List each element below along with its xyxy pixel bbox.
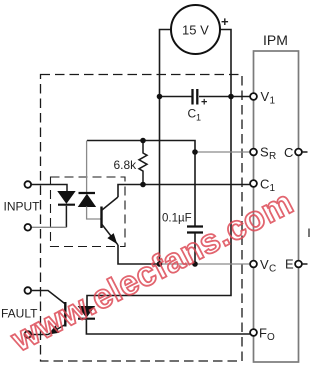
wire: VC rail to VC terminal [118, 245, 160, 264]
junction dot resistor bottom [140, 182, 146, 188]
fault LED D3 cathode wire to FO [86, 320, 250, 334]
junction dot supply neg / V1 wire [157, 94, 163, 100]
svg-text:1: 1 [270, 96, 276, 107]
svg-text:INPUT: INPUT [4, 200, 41, 214]
capacitor C1 plates [193, 89, 198, 105]
phototransistor Q1 emitter [102, 225, 118, 246]
FAULT terminal bottom [25, 331, 32, 338]
wire: collector / 6.8k bottom to C1 terminal [118, 185, 250, 198]
junction dot supply pos / V1 wire [228, 94, 234, 100]
terminal FO [250, 329, 257, 336]
svg-text:6.8k: 6.8k [114, 158, 138, 172]
junction dot 0.1uF bottom [192, 261, 198, 267]
fault phototransistor Q2 emitter arrow [50, 327, 58, 334]
svg-text:V: V [260, 257, 269, 272]
wire: supply positive rail down to fault LED anode [87, 30, 231, 307]
svg-text:+: + [221, 14, 229, 29]
watermark www.elecfans.com [5, 183, 300, 359]
photodiode D2 [79, 192, 96, 194]
terminal C1 [250, 180, 257, 187]
svg-text:V: V [261, 89, 270, 104]
terminal VC [250, 261, 257, 268]
wire SR node down to 0.1uF [194, 152, 196, 226]
wire 0.1uF bottom to VC wire [194, 233, 196, 264]
svg-text:+: + [201, 97, 207, 109]
current mark I [308, 229, 310, 238]
IPM module outline [254, 51, 299, 362]
input LED D1 cathode wire [65, 206, 67, 228]
resistor 6.8k [139, 141, 147, 185]
fault phototransistor Q2 collector wire [31, 291, 65, 305]
phototransistor Q1 collector [102, 197, 118, 210]
svg-text:C: C [260, 177, 269, 192]
svg-text:O: O [267, 332, 275, 343]
junction dot VC rail [157, 261, 163, 267]
wire: V1 supply wire [160, 96, 251, 98]
15 V supply source [171, 5, 220, 54]
driver circuit dashed boundary [41, 75, 243, 362]
phototransistor Q1 emitter arrow [109, 234, 116, 242]
photodiode D2 cathode lead [86, 141, 88, 194]
INPUT terminal top [25, 181, 32, 188]
svg-text:S: S [260, 145, 269, 160]
svg-text:E: E [285, 257, 294, 272]
capacitor 0.1uF plates [187, 227, 203, 233]
svg-text:F: F [259, 326, 267, 341]
svg-text:C: C [284, 145, 293, 160]
svg-text:0.1µF: 0.1µF [162, 213, 192, 225]
svg-text:15 V: 15 V [182, 23, 209, 38]
phototransistor Q1 bar [100, 207, 102, 229]
INPUT terminal bottom [25, 224, 32, 231]
photodiode D2 anode lead to transistor base [87, 207, 102, 220]
svg-text:IPM: IPM [263, 32, 288, 48]
fault phototransistor Q2 emitter wire [31, 325, 65, 335]
fault LED D3 [79, 307, 95, 318]
junction dot resistor top [140, 138, 146, 144]
svg-text:R: R [269, 151, 276, 162]
terminal SR [250, 149, 257, 156]
wire SR node to SR terminal [195, 151, 250, 153]
svg-text:1: 1 [196, 113, 201, 123]
FAULT terminal top [25, 287, 32, 294]
fault phototransistor Q2 bar [64, 302, 66, 327]
terminal V1 [250, 93, 257, 100]
input LED D1 [58, 192, 74, 204]
junction dot SR node [192, 149, 198, 155]
optocoupler U1 package dashed box [51, 177, 126, 247]
svg-text:C: C [269, 264, 276, 275]
wire: supply negative rail [160, 30, 172, 265]
input LED D1 anode wire [31, 185, 67, 192]
wire: photodiode cathode to SR node [87, 141, 195, 153]
